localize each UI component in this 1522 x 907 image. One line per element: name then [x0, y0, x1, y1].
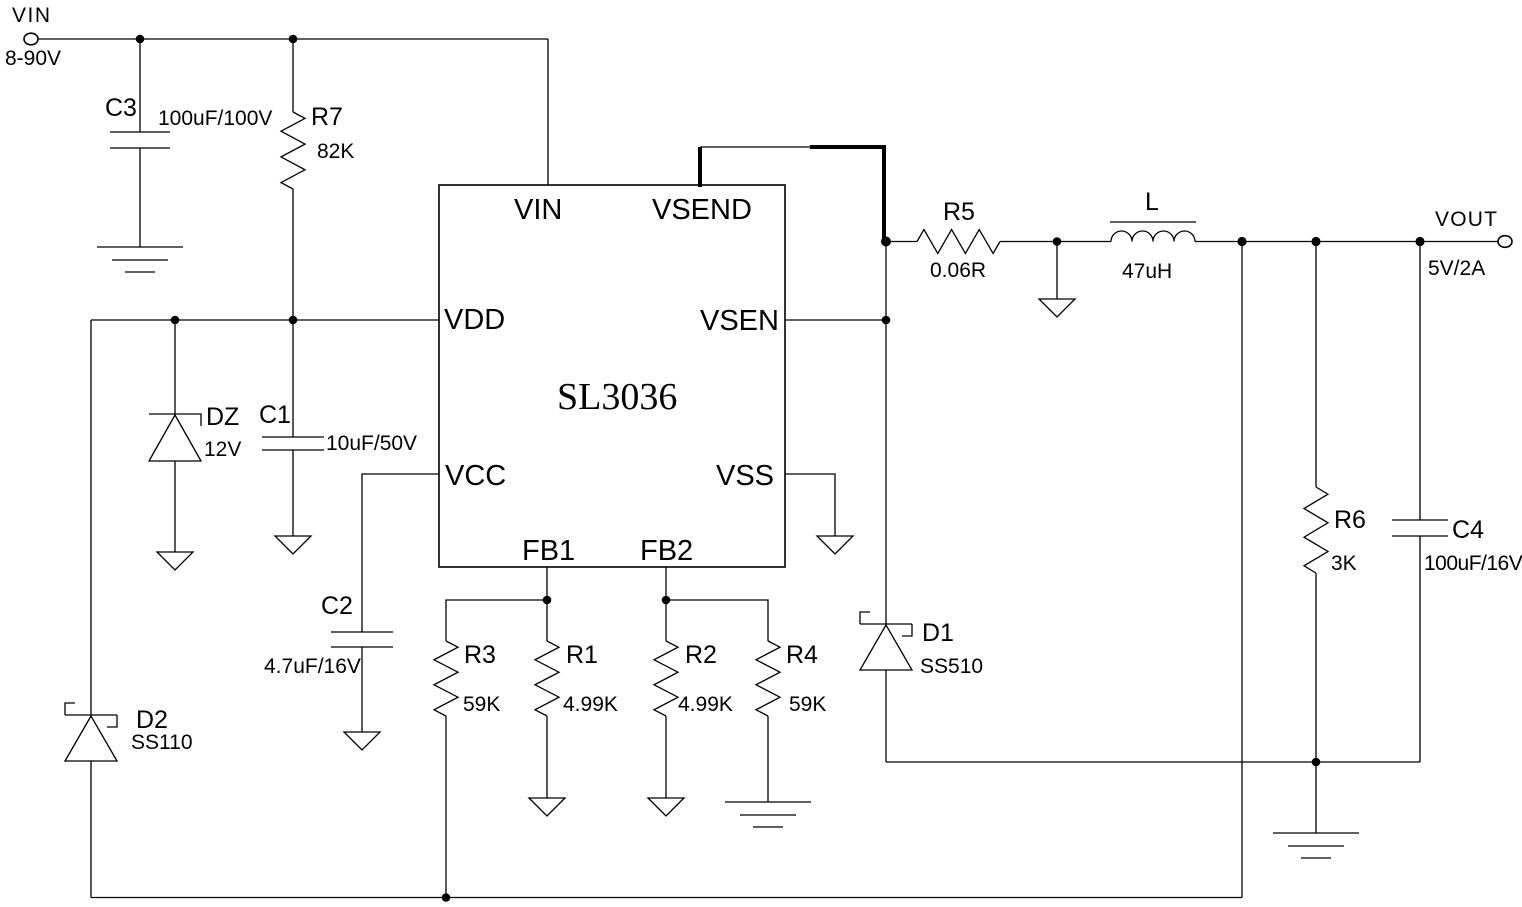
svg-text:R1: R1 — [566, 641, 598, 669]
wire VSEND horizontal thick part — [810, 145, 886, 149]
node junction SW/R5 — [881, 237, 891, 247]
svg-text:82K: 82K — [317, 140, 354, 163]
svg-text:R5: R5 — [943, 198, 975, 226]
wire VIN top rail — [38, 38, 548, 40]
wire gnd symbol lead — [1315, 762, 1317, 833]
ground R4 — [725, 801, 811, 803]
svg-text:59K: 59K — [789, 693, 826, 716]
wire R3 bottom to rail — [445, 716, 447, 898]
wire VIN drop to IC pin VIN — [547, 39, 549, 185]
terminal VIN input — [24, 33, 38, 45]
wire SW drop thick — [882, 145, 886, 242]
ground R6/C4 — [1273, 832, 1359, 834]
wire R2 bottom lead — [665, 716, 667, 798]
wire DZ bottom lead — [174, 461, 176, 552]
wire VOUT column to bottom rail — [1241, 242, 1243, 898]
svg-text:SL3036: SL3036 — [557, 376, 677, 418]
resistor R6 — [1304, 487, 1328, 573]
svg-text:R2: R2 — [685, 641, 717, 669]
svg-text:D1: D1 — [922, 619, 954, 647]
wire FB1 lead — [546, 567, 548, 600]
svg-text:4.99K: 4.99K — [678, 693, 733, 716]
wire bottom rail — [91, 897, 1242, 899]
node junction VOUT/bottom-column — [1237, 237, 1246, 246]
svg-text:FB2: FB2 — [640, 535, 693, 567]
wire VSEND vertical thick — [698, 147, 702, 187]
wire C4 top lead — [1419, 242, 1421, 521]
ground R1 arrow — [529, 798, 565, 816]
wire gnd arrow lead — [1056, 242, 1058, 300]
node junction R7/VIN — [289, 35, 298, 44]
node junction R6/gnd rail — [1312, 758, 1321, 767]
capacitor C3 — [110, 131, 170, 133]
node junction VOUT/C4 — [1415, 237, 1424, 246]
inductor L — [1111, 231, 1195, 242]
ground DZ arrow — [157, 552, 193, 570]
svg-text:5V/2A: 5V/2A — [1428, 257, 1485, 280]
wire FB2 to R4 — [666, 600, 768, 641]
svg-text:D2: D2 — [136, 706, 168, 734]
node junction C1/R7/VDD — [289, 316, 298, 325]
wire C1 top lead — [292, 320, 294, 437]
node junction R5/gnd-arrow — [1053, 237, 1062, 246]
ground VSS arrow — [817, 536, 853, 554]
svg-text:VOUT: VOUT — [1435, 208, 1498, 231]
wire left branch down to D2 — [90, 320, 92, 715]
node junction DZ/VDD — [171, 316, 180, 325]
svg-text:3K: 3K — [1331, 552, 1357, 575]
wire R1 top lead — [546, 600, 548, 641]
wire R1 bottom lead — [546, 716, 548, 798]
svg-text:12V: 12V — [204, 438, 241, 461]
svg-text:VSEN: VSEN — [700, 305, 779, 337]
wire R6 bottom lead — [1315, 573, 1317, 762]
wire R7 top lead — [292, 39, 294, 112]
svg-text:100uF/100V: 100uF/100V — [158, 107, 272, 130]
wire VSEND horizontal thin part — [700, 146, 810, 148]
wire C3 bottom lead — [139, 148, 141, 247]
node junction R3/bottom rail — [442, 893, 451, 902]
svg-text:C1: C1 — [259, 401, 291, 429]
ground C1 arrow — [275, 536, 311, 554]
resistor R1 — [535, 641, 559, 716]
wire VDD rail — [91, 319, 439, 321]
svg-text:8-90V: 8-90V — [5, 47, 61, 70]
wire FB2 lead — [665, 567, 667, 600]
svg-text:4.99K: 4.99K — [563, 693, 618, 716]
svg-text:R6: R6 — [1334, 506, 1366, 534]
svg-text:VIN: VIN — [12, 4, 52, 27]
resistor R7 — [281, 112, 305, 189]
wire R5 left lead — [886, 241, 917, 243]
svg-text:C2: C2 — [321, 592, 353, 620]
resistor R3 — [434, 641, 458, 716]
node junction VOUT/R6 — [1311, 237, 1320, 246]
node junction FB2 — [662, 596, 671, 605]
zener diode DZ 12V — [149, 414, 201, 426]
svg-text:47uH: 47uH — [1122, 260, 1172, 283]
svg-text:FB1: FB1 — [522, 535, 575, 567]
svg-text:VIN: VIN — [514, 194, 562, 226]
wire C1 bottom lead — [292, 450, 294, 536]
wire D2 anode to bottom rail — [90, 761, 92, 898]
svg-text:R7: R7 — [311, 103, 343, 131]
svg-text:10uF/50V: 10uF/50V — [326, 432, 417, 455]
resistor R5 — [917, 230, 1000, 254]
capacitor C1 — [262, 436, 324, 438]
svg-text:VCC: VCC — [445, 460, 506, 492]
wire D1 anode lead — [885, 670, 887, 762]
svg-text:4.7uF/16V: 4.7uF/16V — [264, 655, 361, 678]
wire R5 right lead — [1000, 241, 1111, 243]
svg-text:DZ: DZ — [206, 403, 239, 431]
ground C2 arrow — [344, 732, 380, 750]
wire VSS to ground — [785, 474, 835, 536]
svg-text:R4: R4 — [786, 641, 818, 669]
svg-text:R3: R3 — [464, 641, 496, 669]
svg-text:SS510: SS510 — [920, 655, 983, 678]
node junction FB1 — [543, 596, 552, 605]
svg-text:59K: 59K — [463, 693, 500, 716]
svg-text:VDD: VDD — [444, 304, 505, 336]
wire R7 bottom lead — [292, 189, 294, 320]
svg-text:C4: C4 — [1452, 516, 1484, 544]
wire L to VOUT — [1195, 241, 1498, 243]
capacitor C2 — [331, 631, 393, 633]
svg-text:0.06R: 0.06R — [930, 259, 986, 282]
wire C4 bottom lead — [1419, 536, 1421, 762]
wire FB1 to R3 — [446, 600, 547, 641]
wire gnd rail D1 to C4 — [886, 761, 1420, 763]
svg-text:VSEND: VSEND — [652, 194, 752, 226]
capacitor C4 — [1392, 519, 1448, 521]
schottky diode D2 SS110 — [65, 714, 117, 716]
terminal VOUT — [1498, 236, 1512, 248]
svg-text:SS110: SS110 — [131, 731, 193, 754]
svg-text:VSS: VSS — [716, 460, 774, 492]
ground arrow mid rail — [1039, 299, 1075, 317]
wire SW column down — [885, 242, 887, 625]
wire C3 top lead — [139, 39, 141, 132]
resistor R4 — [756, 641, 780, 716]
wire VCC to C2 — [362, 474, 439, 632]
svg-text:C3: C3 — [105, 94, 137, 122]
op-amp U1 SL3036 IC body — [439, 185, 785, 567]
svg-text:100uF/16V: 100uF/16V — [1424, 552, 1522, 575]
wire R6 top lead — [1315, 242, 1317, 488]
wire R4 bottom lead — [767, 716, 769, 802]
schottky diode D1 SS510 — [860, 623, 912, 625]
node junction VSEN — [882, 316, 891, 325]
ground R2 arrow — [648, 798, 684, 816]
resistor R2 — [665, 600, 667, 641]
ground C3 — [97, 246, 183, 248]
node junction C3/VIN — [136, 35, 145, 44]
wire C2 bottom lead — [361, 647, 363, 732]
svg-text:L: L — [1145, 188, 1159, 216]
wire DZ top lead — [174, 320, 176, 414]
wire VSEN to SW column — [785, 319, 886, 321]
